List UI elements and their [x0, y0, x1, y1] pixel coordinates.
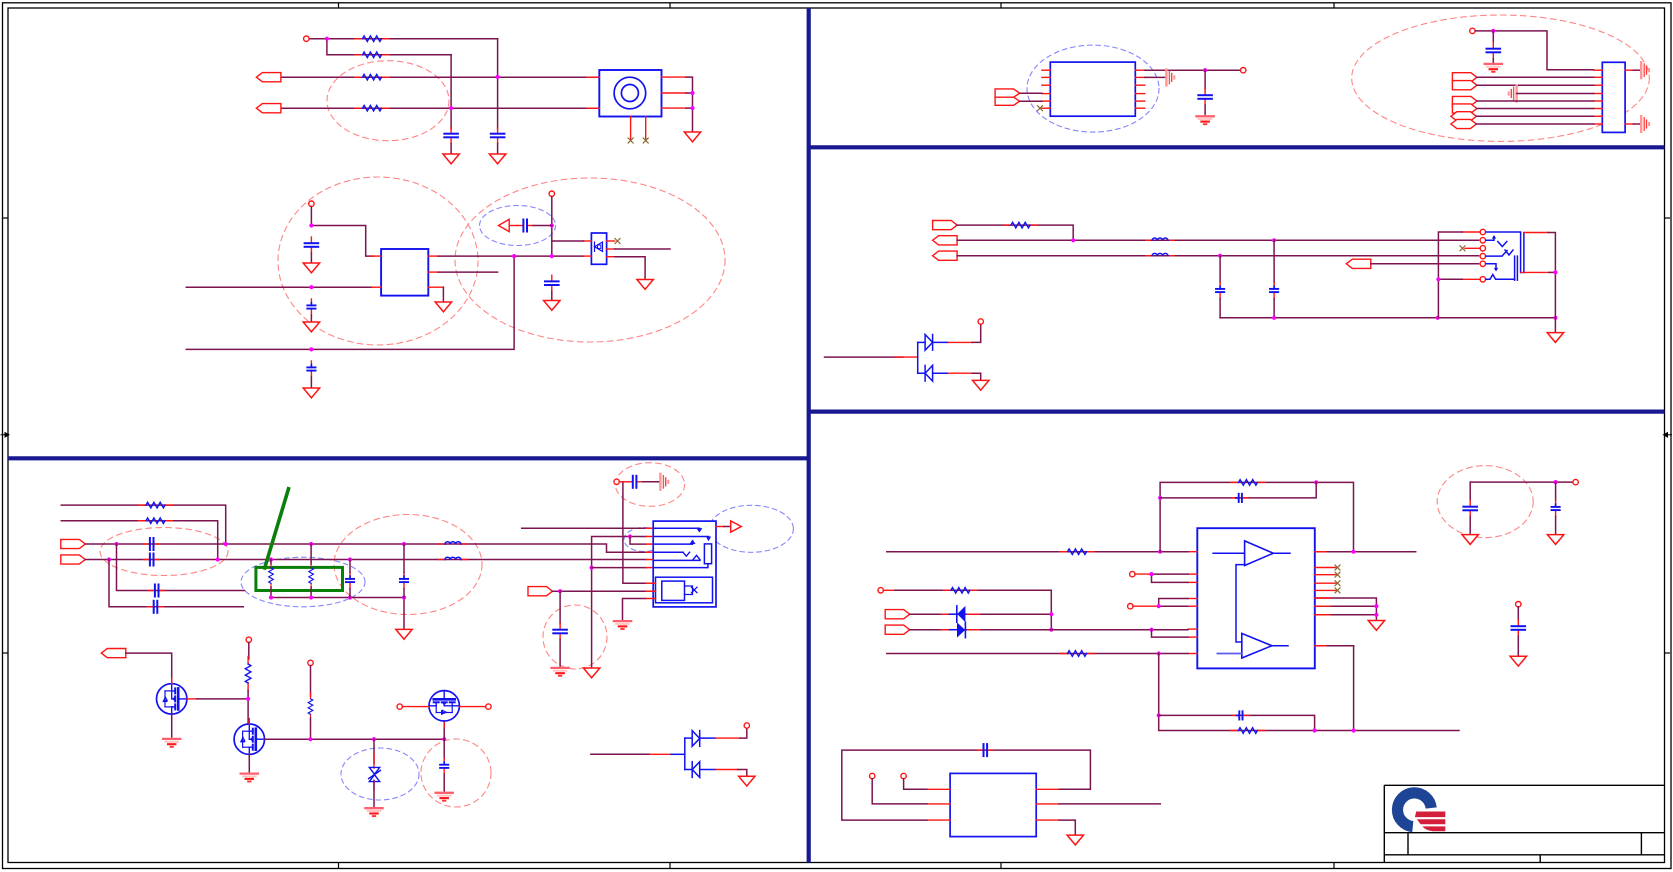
ground triangle gndnet [583, 668, 599, 678]
right pin stub J1 bot [662, 107, 687, 109]
junction D- c [269, 557, 273, 561]
green highlight box [256, 567, 343, 590]
jack switch arrow 1 [1492, 235, 1496, 239]
port Q2 right [1452, 81, 1477, 90]
capacitor C21 fb [1232, 494, 1248, 502]
capacitor C8 series [144, 538, 160, 550]
capacitor C24 [1552, 501, 1560, 517]
wire feed2 [61, 521, 217, 560]
junction fb cap bottom left [1157, 713, 1161, 717]
wire R2 output down to C1 [450, 55, 452, 129]
U4 gnd pins [1315, 598, 1377, 620]
wire pinL3 gnd [623, 599, 647, 620]
wire Q3 bottom [443, 721, 445, 739]
capacitor C25 [1512, 620, 1526, 636]
J2 symbol chevrons [683, 552, 700, 560]
junction jack gnd 2 [690, 106, 694, 110]
junction rail b [1436, 316, 1440, 320]
title block vertical a [1407, 833, 1409, 855]
capacitor C1 [444, 128, 458, 144]
shunt reference U2 [591, 233, 606, 264]
J2 pin stub 2 [646, 536, 653, 538]
port T2 right [885, 625, 910, 634]
open pin Q3 right [486, 704, 491, 709]
logo blue ring [1397, 793, 1431, 827]
junction sleeve [1553, 270, 1557, 274]
resistor R10 vertical [308, 693, 313, 721]
wire vbus W1 [522, 527, 646, 529]
wire port to Q1 [126, 653, 172, 684]
capacitor C15 [627, 476, 643, 488]
chassis ground J3 bottom [1641, 116, 1649, 132]
chassis ground U3 [1166, 70, 1174, 86]
wire pin b [904, 779, 927, 790]
wire C16 gnd [443, 774, 445, 791]
wire U3 out1 [1145, 69, 1241, 71]
U4 gnd stubs red [1315, 598, 1330, 615]
U5 right pin stubs [1036, 789, 1059, 820]
Q3 bottom stub [443, 721, 445, 727]
Q1 pin stubs [172, 679, 197, 721]
wire pin to R10 [310, 666, 312, 696]
capacitor C26 [977, 744, 993, 756]
wire port to pin6 [1477, 108, 1594, 110]
wire pin a [872, 779, 927, 804]
wire R1 output down to C2 [497, 39, 499, 129]
dashed blue ellipse cap input [480, 206, 556, 246]
wire C23 gnd [1469, 517, 1471, 534]
dashed red ellipse caps [1437, 466, 1533, 538]
capacitor C23 [1463, 501, 1477, 517]
wire ref1 pins [1152, 574, 1189, 582]
U2 right pin stub 1 [607, 240, 615, 242]
wire pin C25 [1517, 607, 1519, 620]
dashed blue ellipse output arrow [709, 505, 793, 552]
capacitor C19 [1270, 283, 1278, 299]
wire junction to U2 pin1 [552, 240, 584, 242]
junction D+ a [114, 542, 118, 546]
U5 left pin stubs [927, 789, 950, 820]
U4 outA stub [1315, 551, 1326, 553]
wire out1 down to C17 [1204, 70, 1206, 89]
resistor R5 [139, 502, 173, 508]
wire capL branch [1273, 240, 1275, 282]
dual diode D2 [685, 731, 716, 778]
wire to C18 [1492, 31, 1494, 43]
wire jack pins to gnd rail [686, 77, 693, 132]
output arrow symbol [731, 521, 742, 532]
J2 shield x symbol [692, 587, 698, 593]
open pin U2 top [549, 191, 554, 196]
earth ground Q1 [163, 739, 180, 747]
wire to chassis bottom [1633, 123, 1640, 125]
title block vertical b [1640, 833, 1642, 855]
ground C25 [1510, 656, 1526, 666]
opamp bias link [1236, 565, 1245, 642]
wire Q2 source gnd [248, 754, 250, 771]
gnd rail wire [1220, 317, 1555, 319]
jack switch arrow 2 [1494, 268, 1498, 272]
D3 top lead [948, 341, 972, 343]
junction capL [1272, 238, 1276, 242]
junction gnd link d [402, 595, 406, 599]
J2 shield component [685, 586, 693, 595]
junction fb bottom [1157, 651, 1161, 655]
J2 shield box [656, 577, 713, 603]
J2 shield inner block [662, 581, 685, 600]
jack J4 pin circles [1480, 229, 1485, 234]
resistor R1 [355, 36, 389, 42]
opamp A output line [1273, 552, 1290, 554]
D3 input red lead [895, 356, 918, 358]
wire C24 gnd [1555, 517, 1557, 534]
buzzer outer circle [614, 77, 646, 109]
wire C12 top [349, 560, 351, 573]
earth ground C18 [1485, 64, 1502, 72]
wire pin down to cap node [551, 197, 553, 257]
junction gnd link a [269, 595, 273, 599]
title block outline [1384, 785, 1664, 862]
wire C7 gnd [551, 291, 553, 300]
junction outA vert [512, 254, 516, 258]
resistor R11 [1004, 222, 1038, 228]
cap loop wire [842, 750, 1091, 820]
resistor R12 [1060, 549, 1094, 555]
J2 right pin stub [716, 526, 724, 528]
wire C18 gnd [1492, 59, 1494, 63]
ground U4 [1368, 621, 1384, 631]
wire to C23 [1469, 482, 1471, 500]
opamp U4 [1197, 528, 1315, 668]
open pin Q3 left [397, 704, 402, 709]
port P4 right [61, 539, 86, 548]
isolator U5 [950, 773, 1036, 836]
junction gnd link c [348, 595, 352, 599]
wire net3 port to jack [281, 76, 599, 78]
open pin ref2 [1128, 604, 1133, 609]
open pin 3v3 [1470, 28, 1475, 33]
J2 lower pin stub L3 [646, 598, 656, 600]
wire outB [1315, 645, 1354, 647]
capacitor C4 [307, 299, 315, 315]
wire long in1 [186, 286, 371, 288]
no-connect x2 [643, 138, 648, 143]
port R2 left [933, 236, 958, 245]
junction capR [1218, 254, 1222, 258]
fb cap wire [1160, 482, 1316, 498]
junction fb top [1158, 550, 1162, 554]
dashed blue ellipse around U3 [1027, 45, 1159, 132]
chassis ground J3 top [1641, 62, 1649, 78]
opamp B input line [1217, 653, 1241, 655]
ground U1 [435, 302, 451, 312]
open pin U5 b [901, 773, 906, 778]
no-connect jack [1460, 246, 1465, 251]
TVS D4 [941, 606, 979, 638]
right horizontal section divider 1 [809, 145, 1665, 149]
open pin mute [878, 588, 883, 593]
resistor R6 [139, 518, 173, 524]
wire Q1 source gnd [171, 714, 173, 737]
lead ref2 [1133, 605, 1159, 607]
open pin det [614, 479, 619, 484]
port P1 left [256, 73, 281, 82]
wire stub4 [109, 560, 243, 607]
junction in1 [309, 285, 313, 289]
U1 right pin stub C [428, 286, 443, 288]
wire C13 top [403, 544, 405, 573]
wire U2 out stub [615, 248, 670, 250]
junction gnd link b [309, 595, 313, 599]
inductor L2 [439, 557, 467, 559]
open pin R10 top [308, 660, 313, 665]
chassis ground right [660, 474, 668, 490]
transistor Q2 [234, 724, 264, 754]
junction out1 [1203, 68, 1207, 72]
wire inB long [887, 653, 1188, 655]
resistor R2 [355, 52, 389, 58]
wire U2 pin3 to gnd [615, 257, 646, 280]
earth ground Q2 [241, 774, 258, 782]
J2 pin stub 1 [646, 527, 653, 529]
dual diode D3 input wire [825, 356, 903, 358]
open pin D2 [744, 723, 749, 728]
wire rail to gnd [1554, 318, 1556, 332]
wire sleeve to vert [1549, 271, 1555, 273]
wire outA [1315, 551, 1416, 553]
opamp B triangle [1242, 633, 1272, 658]
left horizontal section divider [8, 456, 809, 460]
zone tick bottom 2 [669, 863, 671, 869]
wire R7 bottom [270, 587, 272, 598]
right horizontal section divider 2 [809, 410, 1665, 414]
zener diode D1 bidirectional [369, 754, 381, 791]
junction ref1 [1149, 572, 1153, 576]
wire port to pinL2 [553, 590, 647, 592]
port Q5 bidir [1451, 112, 1477, 121]
port P5 right [61, 555, 86, 564]
inductor L3 [1146, 238, 1174, 240]
junction T1 [1049, 612, 1053, 616]
wire down to C14 [559, 591, 561, 623]
wire net4 port to jack [281, 107, 599, 109]
opamp B output line [1272, 645, 1288, 647]
wire C25 gnd [1517, 636, 1519, 655]
wire jack top loop [1438, 232, 1462, 318]
U4 outB stub [1315, 645, 1326, 647]
U2 right pin stub 2 [607, 248, 615, 250]
resistor R7 vertical [269, 562, 274, 590]
resistor R14 [943, 588, 977, 594]
J3 left pin stubs [1594, 70, 1603, 124]
port T1 right [885, 610, 910, 619]
ground C1 [443, 154, 459, 164]
junction T2 [1049, 628, 1053, 632]
junction port branch [558, 589, 562, 593]
junction pin67 [1149, 628, 1153, 632]
wire C15 to chassis [643, 481, 660, 483]
wire circle6 to vert [1438, 278, 1462, 280]
D2 input red lead [650, 753, 671, 755]
open pin U5 a [870, 773, 875, 778]
junction cap q [442, 737, 446, 741]
dashed highlight ellipse right [455, 178, 725, 342]
zone tick top 4 [1333, 3, 1335, 8]
junction pin2 branch [628, 534, 632, 538]
junction fb bot a [1313, 728, 1317, 732]
J2 pin stub 5 [646, 559, 653, 561]
wire to zener [373, 739, 375, 763]
wire C20 to rail [1219, 299, 1221, 318]
wire U3 gnd pin [1145, 76, 1166, 78]
jack pin leads [1462, 232, 1480, 279]
wire T1 [910, 613, 1052, 615]
U1 right pin stub A [428, 255, 438, 257]
capacitor C12 [346, 573, 354, 589]
wire D2 bottom to gnd [738, 770, 747, 777]
port P3 left [499, 219, 510, 231]
zone arrow right [1664, 433, 1673, 437]
wire port to pin8 [1476, 123, 1593, 125]
wire Q2 gate wire [265, 738, 445, 740]
vertical section divider [807, 8, 811, 863]
port R1 right detect [933, 221, 958, 230]
open pin ref1 [1130, 571, 1135, 576]
junction gate node [246, 697, 250, 701]
jack bottom pin stub 2 [645, 117, 647, 139]
feedback top loop [1160, 482, 1353, 551]
junction ref2 [1157, 604, 1161, 608]
capacitor C20 [1216, 283, 1224, 299]
junction D+ c [309, 542, 313, 546]
wire inA long [887, 551, 1188, 553]
logo red stripe 3 [1422, 826, 1445, 831]
wire from pin circle to R1 [309, 38, 498, 40]
open pin VCC [304, 36, 309, 41]
port R3 left [933, 251, 958, 260]
wire net D+ [85, 544, 646, 552]
port P7 left vbat [101, 649, 126, 658]
port Q3 right [1452, 96, 1477, 105]
wire capR branch [1219, 256, 1221, 283]
no-connect U3 pin6 [1038, 106, 1043, 111]
junction gnd b [1374, 613, 1378, 617]
dashed blue ellipse jack pins [624, 528, 664, 552]
wire D3 top pin [972, 324, 981, 342]
junction gndnet pin6 [590, 566, 594, 570]
wire junction to U1 in [311, 226, 373, 257]
zone tick right 1 [1665, 217, 1671, 219]
dual diode D2 input wire [591, 753, 650, 755]
wire C1 to gnd [450, 144, 452, 155]
wire to pin6 [592, 567, 646, 569]
dashed red ellipse around J3 [1352, 15, 1650, 141]
ground C3 [303, 263, 319, 273]
ground C7 [544, 301, 560, 311]
left pin stubs J1 [587, 76, 599, 78]
port P2 left [256, 104, 281, 113]
wire D3 bottom gnd [972, 373, 981, 379]
regulator U1 [381, 249, 428, 296]
wire T2 to pin6 [910, 629, 1188, 631]
junction supply [1554, 480, 1558, 484]
open pin top [309, 201, 314, 206]
inductor L4 [1146, 253, 1174, 255]
capacitor C22 fb [1233, 711, 1249, 719]
ground C24 [1547, 535, 1563, 545]
wire U1 gnd pin [442, 287, 444, 302]
wire aux to jack [1371, 263, 1479, 265]
capacitor C7 [545, 275, 559, 291]
wire Q3 right [459, 706, 485, 708]
junction rail a [1272, 316, 1276, 320]
U2 left pin stub 1 [584, 240, 592, 242]
port double input [995, 89, 1020, 97]
capacitor C2 [491, 128, 505, 144]
wire C6 to junction [533, 225, 552, 227]
open pin D3 [978, 319, 983, 324]
wire Q1 gate [197, 698, 248, 700]
lead mute [883, 589, 895, 591]
wire pin to junction [310, 207, 312, 226]
transistor Q1 [157, 684, 187, 714]
capacitor C3 [305, 237, 319, 253]
logo red stripe 2 [1417, 819, 1445, 824]
earth ground C17 [1197, 116, 1214, 124]
wire Q3 left [402, 706, 429, 708]
ground C5 [303, 388, 319, 398]
junction gnd a [1374, 604, 1378, 608]
D2 top lead [715, 737, 740, 739]
zone tick left 2 [3, 652, 9, 654]
J2 pin stub 3 [646, 543, 653, 545]
earth ground L3 [614, 621, 631, 629]
resistor R4 [355, 105, 389, 111]
capacitor C10 series [149, 585, 165, 597]
inductor L1 [439, 542, 467, 544]
dashed red ellipse series caps [100, 528, 228, 576]
lead ref1 [1135, 573, 1152, 575]
wire to chassis top [1633, 69, 1640, 71]
junction zener [372, 737, 376, 741]
zone tick left 1 [3, 217, 9, 219]
wire jack right vert [1548, 233, 1555, 318]
J2 symbol arrow 3 [691, 541, 695, 544]
wire chassis to pin4 [1517, 93, 1594, 95]
chassis ground left pin4 [1509, 86, 1517, 102]
jack bottom pin stub 1 [630, 117, 632, 139]
wire port to pin3 [1477, 84, 1594, 86]
dashed red ellipse filter [334, 515, 482, 615]
ground C2 [489, 154, 505, 164]
U4 left pin stubs [1188, 552, 1197, 654]
gnd link wire [271, 598, 404, 630]
resistor R9 vertical [245, 657, 251, 691]
green annotation line [265, 489, 289, 568]
buzzer J1 box [599, 70, 661, 117]
connector J3 [1602, 62, 1625, 132]
J3 right pin stub bottom [1625, 123, 1633, 125]
wire port1 to pin [1020, 92, 1042, 94]
J2 pin stub 4 [646, 551, 653, 553]
wire lineL [957, 239, 1478, 241]
zone tick top 3 [1000, 3, 1002, 8]
open pin R9 top [246, 637, 251, 642]
dashed blue ellipse termination [241, 557, 365, 607]
wire C6 left lead [509, 225, 517, 227]
wire zener gnd [373, 780, 375, 806]
junction vert left [1436, 277, 1440, 281]
